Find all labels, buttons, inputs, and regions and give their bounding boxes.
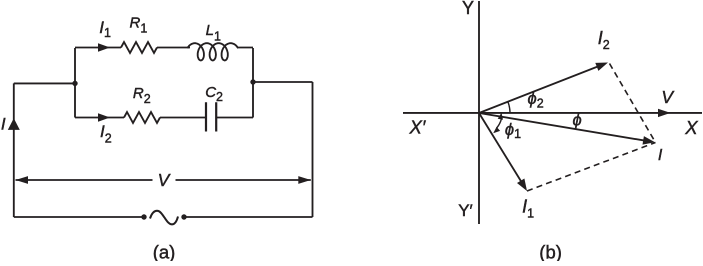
svg-text:V: V xyxy=(661,87,675,107)
svg-text:I: I xyxy=(1,115,6,134)
svg-text:X: X xyxy=(684,117,698,138)
svg-text:I1: I1 xyxy=(99,18,111,40)
svg-text:C2: C2 xyxy=(205,84,223,104)
svg-text:I2: I2 xyxy=(598,28,610,52)
svg-text:I1: I1 xyxy=(522,196,534,220)
svg-text:ϕ: ϕ xyxy=(573,111,582,129)
svg-text:(b): (b) xyxy=(539,241,562,261)
svg-text:I: I xyxy=(658,147,663,164)
svg-text:R2: R2 xyxy=(133,85,151,106)
svg-text:Y′: Y′ xyxy=(458,201,473,220)
svg-text:V: V xyxy=(158,170,172,190)
svg-text:ϕ2: ϕ2 xyxy=(528,90,544,110)
svg-text:(a): (a) xyxy=(153,241,176,261)
svg-text:L1: L1 xyxy=(206,22,221,44)
svg-text:I2: I2 xyxy=(100,122,112,146)
svg-text:R1: R1 xyxy=(130,15,148,36)
svg-text:ϕ1: ϕ1 xyxy=(505,121,521,141)
svg-text:Y: Y xyxy=(462,0,474,18)
svg-text:X′: X′ xyxy=(409,117,426,138)
